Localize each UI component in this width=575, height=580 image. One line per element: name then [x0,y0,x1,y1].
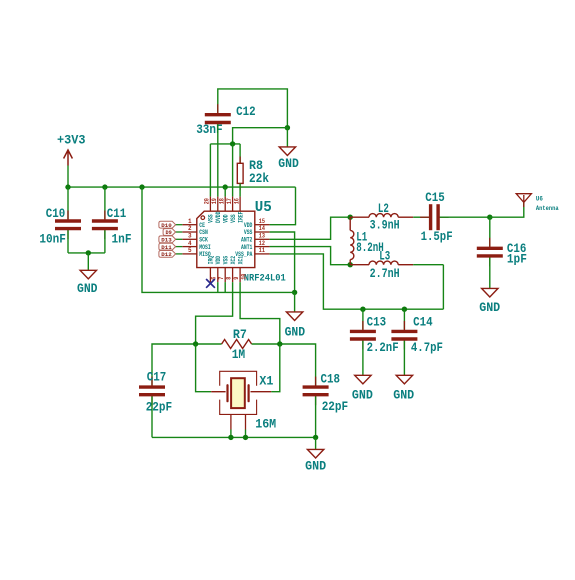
svg-text:20: 20 [204,198,211,205]
svg-text:17: 17 [226,198,233,205]
inductor L1 lower lead [349,260,351,265]
no-connect X on IRQ pin 6 [206,279,215,288]
svg-text:GND: GND [479,300,500,315]
pin 2 CSN stub [182,231,197,233]
svg-text:2.2nF: 2.2nF [367,340,399,355]
inductor L2 [369,214,398,218]
antenna U6 symbol [516,194,531,207]
wire flag D10 to pin [176,224,183,226]
pin 7 VDD stub (bottom) [217,268,219,283]
pin 16 IREF stub (top) [239,197,241,212]
svg-text:7: 7 [218,276,225,279]
junction ANT2 node [348,215,353,220]
svg-text:2.7nH: 2.7nH [370,266,400,281]
junction R7 right [277,341,282,346]
wire pin 14 VSS to gnd [270,232,295,292]
svg-text:VDD: VDD [244,222,253,229]
wire XC2 down to crystal left [196,344,212,392]
svg-text:33nF: 33nF [196,122,223,137]
wire R7 right to C18 [252,344,316,386]
connector flag D12 [159,251,176,258]
svg-text:16M: 16M [255,417,276,432]
svg-text:16: 16 [233,198,240,205]
wire 3V3 rail [68,186,296,188]
svg-text:5: 5 [188,247,192,254]
svg-text:L3: L3 [379,249,390,264]
capacitor C16 [489,238,491,249]
svg-text:L2: L2 [378,201,389,216]
junction at VDD pin 18 [223,184,228,189]
pin 15 VDD stub [255,224,270,226]
connector flag D13 [159,236,176,243]
ground symbol C16 [482,288,498,297]
junction ANT1 node [348,262,353,267]
U5 pin-1 marker circle [201,216,205,220]
svg-text:1pF: 1pF [507,251,527,266]
svg-text:X1: X1 [259,374,273,389]
inductor L3 [369,261,398,265]
wire pin 10 XC1 to R7 right [240,282,280,344]
wire +3V3 to rail [67,166,69,188]
capacitor C17 [151,377,153,388]
connector flag D10 [159,221,176,228]
svg-text:U5: U5 [255,199,272,216]
svg-text:C13: C13 [367,314,387,329]
svg-text:4: 4 [188,240,192,247]
svg-text:XC1: XC1 [237,256,244,265]
svg-text:D9: D9 [166,230,172,236]
svg-text:GND: GND [305,459,326,474]
wire C12 gnd stem [286,128,288,147]
svg-text:1nF: 1nF [112,231,132,246]
svg-text:C17: C17 [147,369,167,384]
svg-text:11: 11 [259,247,266,254]
svg-text:VSS: VSS [223,256,230,265]
junction VSS gnd [292,290,297,295]
svg-text:U6: U6 [536,195,543,202]
wire XC1 down to crystal right [271,344,280,392]
wire pin 12 ANT1 to L-junction [270,247,351,265]
svg-text:IREF: IREF [237,211,244,223]
svg-text:8: 8 [225,276,232,279]
svg-text:D11: D11 [161,245,172,251]
crystal X1 left electrode [226,385,228,401]
svg-text:C11: C11 [107,206,127,221]
junction C13 [360,307,365,312]
inductor L2 right lead [398,216,413,218]
wire rail to pin 18 [224,187,226,197]
svg-text:VDD: VDD [223,214,230,223]
inductor L2 left lead [350,216,369,218]
svg-text:4.7pF: 4.7pF [411,340,443,355]
svg-text:15: 15 [259,218,266,225]
svg-text:D13: D13 [161,238,172,244]
junction at ground stem [86,250,91,255]
junction R7 left [193,341,198,346]
wire pin 13 ANT2 to L-junction [270,217,351,239]
capacitor C12 [217,104,219,115]
wire L3 down to PA node [442,265,444,310]
wire C13 to gnd [362,341,364,376]
resistor R8 leads [239,157,241,164]
wire C10 bottom [67,230,69,253]
wire C14 to gnd [403,341,405,376]
svg-text:GND: GND [77,281,98,296]
svg-text:1: 1 [188,218,192,225]
wire to antenna [490,202,524,217]
junction case pin left [228,435,233,440]
wire C14 top [403,309,405,329]
ground symbol crystal [307,449,323,458]
pin 11 VSS_PA stub [255,253,270,255]
wire crystal bottom bus [152,436,316,438]
svg-text:10nF: 10nF [39,231,66,246]
wire L3 right [413,264,443,266]
junction at VDD branch [139,184,144,189]
pin 18 VDD stub (top) [224,197,226,212]
svg-text:R7: R7 [233,327,247,342]
wire C13 top [362,309,364,329]
svg-text:VSS: VSS [244,229,253,236]
resistor R8 [237,163,243,183]
capacitor C13 [362,321,364,332]
junction at C12 ground [285,125,290,130]
ground symbol left [80,270,96,279]
svg-text:NRF24L01: NRF24L01 [244,272,286,284]
pin 10 XC1 stub (bottom) [239,268,241,283]
svg-text:2: 2 [188,225,192,232]
pin 19 DVDD stub (top) [217,197,219,212]
capacitor C18 [315,377,317,388]
pin 8 VSS stub (bottom) [224,268,226,283]
crystal X1 right electrode [248,385,250,401]
wire flag D11 to pin [176,246,183,248]
wire L2 to C15 [413,216,429,218]
svg-text:ANT2: ANT2 [241,237,253,244]
svg-text:ANT1: ANT1 [241,244,253,251]
crystal X1 package outline [220,371,257,414]
power +3V3 supply symbol [64,150,73,166]
junction vss bus [230,141,235,146]
wire C17 to bottom bus [151,396,153,437]
wire C11 bottom [104,230,106,253]
wire C16 to gnd [489,258,491,289]
pin 13 ANT2 stub [255,238,270,240]
svg-text:SCK: SCK [199,237,208,244]
wire pin 8 down [224,282,226,292]
svg-text:3: 3 [188,233,192,240]
wire vss bus to R8 top [239,144,241,163]
wire vdd branch left rail down [142,187,295,292]
wire vss bus to pin 20 [209,144,211,197]
svg-text:GND: GND [278,156,299,171]
wire crystal gnd stem [315,437,317,449]
wire flag D13 to pin [176,238,183,240]
junction C14 [402,307,407,312]
wire C18 to bottom bus [315,396,317,437]
crystal X1 body [231,378,245,408]
wire C15 to antenna node [440,216,490,218]
junction at +3V3/C10 [65,184,70,189]
ground symbol C13 [355,375,371,384]
pin 12 ANT1 stub [255,246,270,248]
svg-text:19: 19 [211,198,218,205]
pin 5 MISO stub [182,253,197,255]
pin 17 VSS stub (top) [232,197,234,212]
connector flag D11 [159,243,176,250]
wire gnd stem below IC [294,292,296,312]
resistor R7 [222,340,252,349]
junction at C11 [102,184,107,189]
ground symbol C14 [396,375,412,384]
crystal X1 right lead [251,391,272,393]
wire rail down to pin 15 [270,187,296,225]
svg-text:GND: GND [285,325,306,340]
crystal X1 left lead [211,391,225,393]
svg-text:22pF: 22pF [322,399,349,414]
capacitor C10 [67,211,69,222]
wire vss bus horizontal [210,143,240,145]
wire pin 7 down [217,282,219,292]
svg-text:C15: C15 [425,190,445,205]
svg-text:D10: D10 [161,223,172,229]
op IC U5 NRF24L01 body [197,211,255,267]
wire antenna node to C16 [489,217,491,246]
svg-text:1.5pF: 1.5pF [421,229,453,244]
capacitor C15 [420,216,431,218]
inductor L3 left lead [350,264,369,266]
svg-text:C12: C12 [236,104,256,119]
pin 1 CE stub [182,224,197,226]
svg-text:VSS: VSS [208,214,215,223]
wire pin 11 VSS_PA to PA node [270,254,444,309]
pin 14 VSS stub [255,231,270,233]
svg-text:22pF: 22pF [146,399,173,414]
svg-text:MOSI: MOSI [199,244,211,251]
svg-text:10: 10 [240,273,247,280]
capacitor C14 [403,321,405,332]
svg-text:GND: GND [352,388,373,403]
wire pin 17 up to vss bus [232,144,234,197]
svg-text:9: 9 [233,276,240,279]
pin 4 MOSI stub [182,246,197,248]
svg-text:12: 12 [259,240,266,247]
ground symbol C12 [279,147,295,156]
junction crystal gnd [313,435,318,440]
svg-text:C14: C14 [413,314,433,329]
wire flag D12 to pin [176,253,183,255]
svg-text:CSN: CSN [199,229,208,236]
pin 9 XC2 stub (bottom) [232,268,234,283]
inductor L1 leads [349,217,351,230]
junction antenna node [487,215,492,220]
svg-text:1M: 1M [232,347,246,362]
wire R8 bottom to pin 16 [239,183,241,196]
inductor L3 right lead [398,264,413,266]
capacitor C11 [104,211,106,222]
wire gnd to vss bus [233,128,288,144]
svg-text:C18: C18 [321,371,341,386]
wire C12 bottom to pin 19 [217,124,219,196]
pin 3 SCK stub [182,238,197,240]
svg-text:18: 18 [218,198,225,205]
svg-text:13: 13 [259,233,266,240]
wire pin 9 XC2 to R7 left [196,282,233,344]
svg-text:C10: C10 [46,206,66,221]
svg-text:3.9nH: 3.9nH [370,217,400,232]
svg-text:VSS: VSS [230,214,237,223]
svg-text:VDD: VDD [215,256,222,265]
wire case pin left down [230,430,232,438]
svg-text:+3V3: +3V3 [57,133,86,148]
pin 20 VSS stub (top) [209,197,211,212]
crystal case pin right [245,414,247,429]
wire C11 top [104,187,106,219]
connector flag D9 [163,229,176,236]
svg-text:22k: 22k [249,171,269,186]
svg-text:GND: GND [393,388,414,403]
svg-text:D12: D12 [161,252,172,258]
wire case pin right down [245,430,247,438]
svg-text:XC2: XC2 [230,256,237,265]
wire R7 net left [152,344,222,385]
inductor L1 [350,230,354,259]
svg-text:IRQ: IRQ [208,256,215,265]
svg-text:CE: CE [199,222,205,229]
wire ground stem [87,253,89,270]
svg-text:DVDD: DVDD [215,211,222,223]
ground symbol below IC [286,312,302,321]
wire C10 top [67,187,69,219]
wire C12 top loop [218,89,288,128]
pin 6 IRQ stub (bottom) [209,268,211,283]
svg-text:Antenna: Antenna [536,205,559,212]
junction case pin right [243,435,248,440]
crystal case pin left [230,414,232,429]
wire flag D9 to pin [176,231,183,233]
svg-text:14: 14 [259,225,266,232]
wire C10/C11 ground link [68,252,105,254]
